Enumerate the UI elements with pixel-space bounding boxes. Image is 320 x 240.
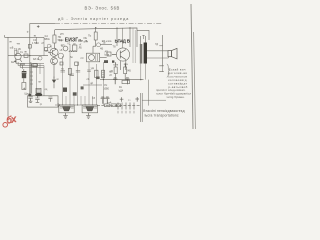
electrolytic C15 <box>113 78 117 84</box>
svg-text:пЧ: пЧ <box>81 57 84 60</box>
transistor Q2 <box>50 48 58 56</box>
svg-text:Втасdнi пепаizдваяcresд: Втасdнi пепаizдваяcresд <box>143 109 185 113</box>
resistor R15 <box>122 80 130 83</box>
dark blob mid <box>73 92 77 95</box>
box hatch <box>96 54 98 61</box>
cap symbol in box 1 <box>28 97 32 103</box>
Q1 emitter flag <box>14 61 16 63</box>
short comb stubs <box>66 96 93 105</box>
wire speaker vertical <box>162 35 164 66</box>
box on x96 <box>95 70 98 77</box>
speaker cone <box>172 48 178 59</box>
wire to speaker bottom <box>147 57 168 58</box>
transistor Q5 inside box <box>89 55 95 61</box>
bus y79.6 <box>100 79 144 81</box>
resistor R9 <box>32 64 38 67</box>
electrolytic C7 body <box>22 74 26 79</box>
resistor R12 <box>102 70 105 78</box>
antenna stub <box>4 35 6 37</box>
R12 hatch <box>102 72 104 76</box>
small box upper mid2 <box>75 62 79 65</box>
switch box2 <box>111 104 116 107</box>
transistor Q3a <box>58 53 63 58</box>
svg-text:Т2 пБ: Т2 пБ <box>14 47 21 51</box>
transistor Q1 <box>15 53 21 59</box>
feedback loop wires <box>16 64 44 68</box>
callout line <box>142 99 166 101</box>
junction arrow <box>58 103 61 107</box>
wire link vertical <box>37 37 45 55</box>
resistor R7 <box>94 32 97 40</box>
svg-text:вз: вз <box>34 35 36 38</box>
wire rail to Q8 <box>122 28 124 48</box>
junction dot mid wire <box>29 55 30 56</box>
lower mid horizontals <box>83 84 102 86</box>
svg-text:ЬЬ: ЬЬ <box>11 61 15 64</box>
bottom rail <box>55 104 97 106</box>
capacitor C5 <box>20 64 25 69</box>
wire input <box>5 36 45 38</box>
svg-text:10В0: 10В0 <box>103 88 109 91</box>
transistor Q3 internals <box>53 58 56 64</box>
dark mark under Q8 b <box>112 60 114 62</box>
svg-text:свБ: свБ <box>108 102 112 104</box>
resistor R11 <box>68 69 71 75</box>
dagger mark 1 <box>120 97 124 102</box>
small rect cluster <box>45 48 48 51</box>
node + mark <box>37 25 40 28</box>
svg-text:гё: гё <box>60 39 63 43</box>
tuner block 1 trapezoid <box>63 107 71 111</box>
red terminal circle <box>3 123 8 128</box>
svg-text:7Д: 7Д <box>155 43 158 46</box>
tuner block 1 frame <box>59 105 74 113</box>
IF can above box <box>36 88 41 93</box>
loop end verticals <box>40 64 44 96</box>
wire mid horizontal <box>8 55 48 57</box>
base element Q1 <box>15 50 17 55</box>
switch row dashed <box>97 105 140 107</box>
block1 side caps <box>60 107 74 108</box>
transistor Q4 <box>97 43 101 47</box>
svg-text:1 5В0: 1 5В0 <box>32 41 39 45</box>
IF transformer box <box>87 53 100 62</box>
bottom caption <box>143 109 185 118</box>
small box left of Q8 <box>107 52 111 56</box>
small box upper mid <box>60 62 63 65</box>
dagger mark 2 <box>135 97 139 102</box>
svg-text:ЬП4Д В: ЬП4Д В <box>115 39 130 44</box>
transistor Q2 internals <box>48 49 56 56</box>
rail dots <box>62 104 63 105</box>
terminal stub <box>162 66 164 72</box>
IF can hatch <box>37 90 41 91</box>
brace <box>167 64 169 77</box>
wire <box>116 28 118 46</box>
node dot <box>95 27 96 28</box>
resistor R10 below C7 <box>22 83 26 90</box>
electrolytic C7 plates <box>22 72 27 74</box>
capacitor C10 <box>76 71 80 73</box>
diode D1 <box>52 80 56 84</box>
supply rail <box>55 28 137 47</box>
svg-text:ЬД4: ЬД4 <box>119 89 124 92</box>
resistor R1 on enclosure line <box>28 45 31 49</box>
ground 2 <box>86 113 91 119</box>
bundle ticks <box>30 72 33 84</box>
coil L3 <box>69 51 76 52</box>
wire <box>23 69 25 82</box>
cap symbol in box 3 <box>48 97 52 102</box>
right paragraph mid <box>156 88 192 99</box>
small circle mid-left <box>38 56 42 60</box>
middle comb verticals <box>63 44 104 105</box>
switch box <box>105 104 110 107</box>
node dot <box>116 28 117 29</box>
page edge line 1 <box>191 4 193 129</box>
svg-text:уф: уф <box>91 67 94 70</box>
wire to speaker top <box>147 50 168 52</box>
block2 side caps <box>83 107 97 108</box>
svg-text:Т: Т <box>142 35 145 41</box>
svg-text:ВЭ- Эхос. 56В: ВЭ- Эхос. 56В <box>85 6 120 11</box>
cap symbol in box 2 <box>35 96 39 103</box>
svg-text:вг: вг <box>57 78 59 81</box>
cap bars on x89 <box>87 70 91 72</box>
wire down right <box>147 80 149 106</box>
svg-text:ЦП: ЦП <box>61 45 65 48</box>
bundle end dot <box>28 94 31 96</box>
loop verticals <box>16 60 20 67</box>
resistor R2 <box>53 35 56 43</box>
node dot <box>129 27 130 28</box>
electrolytic C12 <box>63 88 67 92</box>
bus junction dots <box>103 79 104 80</box>
rail branch <box>137 30 149 40</box>
page edge line 2 <box>194 32 196 129</box>
tuner block 2 frame <box>82 105 97 113</box>
IF can component <box>73 45 77 51</box>
resistor R14 <box>124 67 127 74</box>
Q8 leads <box>121 60 126 70</box>
wire <box>100 57 107 59</box>
small component circle <box>63 46 68 51</box>
wire <box>30 62 32 93</box>
cross mark <box>23 88 25 90</box>
svg-text:4Б: 4Б <box>100 47 103 51</box>
driver transformer winding left <box>140 44 143 64</box>
ground 1 <box>63 113 68 119</box>
svg-text:д5 - Элегia партier розеда: д5 - Элегia партier розеда <box>58 16 129 21</box>
output transformer winding dark <box>144 43 147 64</box>
chassis dash-dot boundary <box>55 23 162 25</box>
svg-text:ИП: ИП <box>60 33 64 36</box>
svg-text:читig брчвен.: читig брчвен. <box>166 95 185 99</box>
bundle vertical pair <box>32 64 37 96</box>
wire <box>54 30 56 48</box>
dark blob mid2 <box>81 86 84 89</box>
svg-text:лБ: лБ <box>85 40 88 43</box>
wire base link <box>100 44 112 46</box>
resistor R3 on mid wire <box>24 54 28 57</box>
wire <box>54 48 56 78</box>
switch contact pins below <box>118 111 134 114</box>
small box mid-left <box>33 64 37 67</box>
svg-text:сЧ: сЧ <box>110 70 113 73</box>
speaker terminal ticks <box>159 66 164 72</box>
capacitor C9 <box>61 71 65 73</box>
wire left enclosure vertical <box>30 24 55 96</box>
electrolytic C18 <box>101 97 105 104</box>
transistor Q3 <box>51 58 58 65</box>
right paragraph upper <box>168 68 188 89</box>
faint mark left <box>27 31 29 33</box>
svg-text:1Б: 1Б <box>103 42 106 45</box>
Q8 internals <box>112 50 126 60</box>
wire <box>116 62 126 80</box>
box top lead <box>93 46 96 53</box>
wire <box>95 28 97 46</box>
dark mark under Q8 <box>104 60 108 63</box>
tuner block 2 trapezoid <box>86 107 94 111</box>
transistor Q1 leads <box>14 50 22 62</box>
column rule pair <box>140 93 142 122</box>
cap to ground mid <box>70 74 74 75</box>
electrolytic C16 <box>125 78 129 84</box>
svg-text:+н: +н <box>16 41 20 45</box>
svg-text:lьcra тransportationс: lьcra тransportationс <box>145 114 179 118</box>
resistor R13 <box>114 67 117 74</box>
svg-text:б4Б: б4Б <box>127 70 132 73</box>
wire pair left of transformer <box>133 28 135 63</box>
output transistor Q8 <box>116 48 129 61</box>
junction tick <box>159 45 162 47</box>
svg-text:пЬч: пЬч <box>124 63 129 66</box>
dark mark <box>96 77 100 80</box>
electrolytic C19 <box>105 97 109 104</box>
svg-text:ЛБ: ЛБ <box>79 47 83 50</box>
svg-text:6В0к: 6В0к <box>44 37 51 41</box>
switch contacts <box>118 103 134 110</box>
svg-text:сЬ: сЬ <box>87 78 90 81</box>
IF can dark base <box>35 93 42 96</box>
wire <box>53 77 55 89</box>
wire <box>129 28 131 47</box>
screened box bottom-left <box>28 96 59 107</box>
wire left vertical <box>7 37 9 116</box>
transformer bottom leads <box>141 64 146 80</box>
switch box3 <box>117 104 121 107</box>
speaker driver <box>168 51 172 57</box>
small circle cluster <box>47 44 50 47</box>
transformer top leads <box>141 36 146 44</box>
